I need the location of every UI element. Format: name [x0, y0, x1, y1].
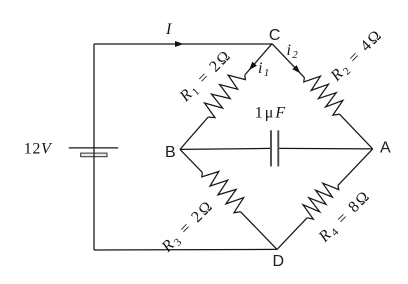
- wire: vertical segment over battery plate: [93, 153, 95, 157]
- svg-text:R3 = 2Ω: R3 = 2Ω: [158, 197, 218, 257]
- resistor R2 zigzag: [304, 76, 343, 115]
- wire: capacitor right plate to node A: [279, 147, 373, 150]
- wire: node B to capacitor left plate: [180, 148, 270, 149]
- svg-text:i2: i2: [287, 42, 299, 61]
- wire: branch C to A upper segment: [272, 44, 304, 78]
- svg-text:A: A: [380, 140, 391, 157]
- svg-text:i1: i1: [258, 60, 269, 79]
- svg-text:1μF: 1μF: [255, 105, 287, 122]
- battery 12V: short negative plate rectangle: [81, 153, 107, 157]
- wire: left vertical battery branch: [93, 44, 95, 250]
- wire: branch A to D lower segment to node D: [277, 218, 307, 250]
- svg-text:B: B: [165, 144, 176, 161]
- arrow: current I on top wire: [175, 41, 184, 47]
- wire: branch B to D upper segment: [180, 149, 202, 172]
- capacitor right plate: [277, 130, 279, 166]
- battery 12V: long positive plate: [69, 147, 118, 149]
- wire: branch A to D upper segment: [338, 149, 373, 186]
- wire: bottom horizontal from battery branch to node D: [94, 248, 277, 251]
- wire: branch C to A lower segment to node A: [339, 114, 372, 149]
- wire: top horizontal from battery branch to node C: [94, 43, 272, 45]
- svg-text:R4 = 8Ω: R4 = 8Ω: [315, 187, 375, 247]
- wire: branch C to B lower segment to node B: [180, 117, 208, 149]
- resistor R3 zigzag: [202, 172, 244, 213]
- svg-text:D: D: [273, 253, 285, 270]
- resistor R1 zigzag: [205, 75, 246, 118]
- wire: branch C to B upper segment: [245, 44, 272, 75]
- resistor R4 zigzag: [303, 183, 339, 219]
- svg-text:12V: 12V: [24, 141, 53, 158]
- svg-text:C: C: [269, 27, 281, 44]
- arrow: current i2 on branch C-A: [292, 65, 300, 73]
- wire: branch B to D lower segment to node D: [241, 212, 277, 250]
- capacitor left plate: [270, 130, 272, 166]
- svg-text:I: I: [165, 21, 172, 38]
- arrow: current i1 on branch C-B: [249, 62, 257, 70]
- svg-text:R2 = 4Ω: R2 = 4Ω: [327, 26, 387, 86]
